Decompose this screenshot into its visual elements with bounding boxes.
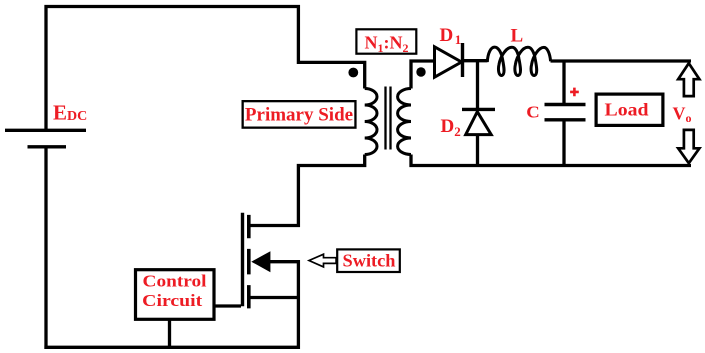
svg-text:Control: Control [143,272,207,291]
svg-text:Switch: Switch [343,250,396,270]
svg-text:C: C [526,103,540,122]
svg-text:L: L [511,25,524,46]
svg-text:Primary Side: Primary Side [245,105,353,126]
svg-text:Load: Load [605,100,649,120]
svg-text:N1:N2: N1:N2 [365,33,409,56]
svg-text:Circuit: Circuit [142,291,202,310]
